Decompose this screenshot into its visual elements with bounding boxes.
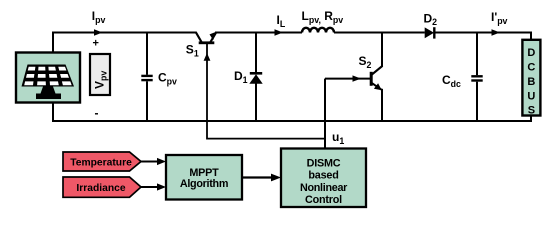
PV module <box>16 53 80 103</box>
input Temperature <box>63 152 141 171</box>
transistor S2 <box>359 33 383 122</box>
svg-text:-: - <box>95 106 99 120</box>
svg-text:S: S <box>528 105 535 117</box>
arrow MPPT to DISMC <box>242 174 281 182</box>
svg-text:based: based <box>308 170 338 182</box>
svg-text:U: U <box>527 91 535 103</box>
node label IL with current arrow <box>275 13 286 36</box>
wire PV bottom lead <box>52 103 54 123</box>
diode D1 <box>234 33 263 122</box>
wire S2 base <box>325 75 370 81</box>
node label Ipv with current arrow <box>92 9 106 36</box>
wire gate drive from S1 base <box>207 44 325 139</box>
wire net u1 vertical <box>324 79 326 149</box>
node label I'pv with current arrow <box>491 10 508 36</box>
capacitor Cpv <box>141 33 177 122</box>
svg-text:C: C <box>527 62 535 74</box>
diode D2 <box>424 11 438 38</box>
DISMC control block <box>281 149 366 208</box>
wire bottom rail <box>52 115 531 122</box>
wire PV top lead <box>52 32 54 53</box>
svg-text:Algorithm: Algorithm <box>180 178 228 190</box>
svg-text:DISMC: DISMC <box>307 158 341 170</box>
switch S1 <box>186 32 216 61</box>
wire top rail inductor to D2 <box>334 32 425 34</box>
svg-text:+: + <box>93 38 99 50</box>
inductor Lpv Rpv <box>302 9 344 33</box>
arrow Irradiance to MPPT <box>141 183 166 190</box>
svg-text:D: D <box>527 47 535 59</box>
svg-text:Nonlinear: Nonlinear <box>300 182 348 194</box>
wire top rail D2 to DC bus <box>434 33 531 42</box>
svg-text:B: B <box>527 76 535 88</box>
input Irradiance <box>63 177 141 197</box>
arrow Temperature to MPPT <box>141 158 166 165</box>
svg-text:Temperature: Temperature <box>70 158 132 169</box>
wire top rail left segment <box>52 32 197 34</box>
svg-text:Irradiance: Irradiance <box>76 183 125 194</box>
MPPT Algorithm block <box>166 155 242 200</box>
voltmeter Vpv <box>90 54 110 95</box>
DC bus <box>522 40 540 117</box>
svg-text:MPPT: MPPT <box>189 167 219 179</box>
wire top rail S1 to inductor <box>215 32 302 34</box>
capacitor Cdc <box>442 33 483 122</box>
svg-text:Control: Control <box>305 194 342 206</box>
